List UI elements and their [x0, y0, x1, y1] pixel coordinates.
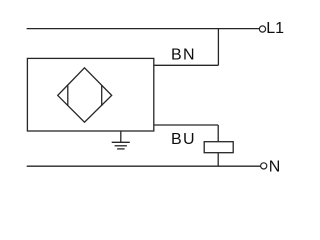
wire BN horizontal [154, 64, 219, 66]
wire load to N [217, 153, 219, 167]
wire BU riser [217, 125, 219, 142]
right triangle chord [101, 85, 103, 106]
ground bar 2 [115, 145, 127, 147]
terminal N [261, 163, 267, 169]
ground stem [120, 131, 122, 142]
ground bar 1 [112, 141, 130, 143]
wire BN riser [217, 29, 219, 66]
svg-text:N: N [269, 158, 281, 175]
svg-text:BU: BU [171, 131, 196, 148]
ground bar 3 [117, 148, 125, 150]
left triangle chord [67, 85, 69, 106]
wire L1 supply line [27, 28, 260, 30]
svg-text:L1: L1 [266, 20, 284, 37]
svg-text:BN: BN [171, 47, 196, 64]
proximity sensor diamond [58, 68, 112, 122]
terminal L1 [259, 26, 265, 32]
sensor body box [27, 58, 153, 131]
wire BU horizontal [154, 124, 218, 126]
load resistor [204, 142, 233, 153]
wire N supply line [27, 165, 261, 167]
